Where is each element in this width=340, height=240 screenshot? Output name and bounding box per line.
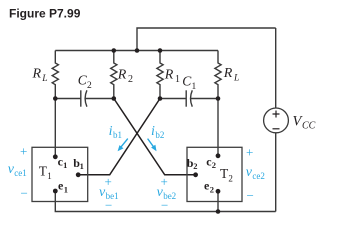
svg-text:2: 2 <box>212 160 216 170</box>
wire: cross-coupling R2 to b2 <box>114 99 196 175</box>
svg-text:−: − <box>247 188 254 203</box>
node: rail junction R2 <box>112 48 117 53</box>
svg-text:1: 1 <box>63 160 67 170</box>
resistor R1 <box>157 51 163 99</box>
svg-text:2: 2 <box>193 161 197 171</box>
svg-text:ce2: ce2 <box>252 171 265 181</box>
label vbe2 <box>157 174 177 213</box>
svg-text:CC: CC <box>302 121 316 132</box>
node: C2 left junction <box>53 96 58 101</box>
svg-text:1: 1 <box>47 171 52 181</box>
svg-text:2: 2 <box>210 185 214 195</box>
svg-text:1: 1 <box>64 185 68 195</box>
svg-text:R: R <box>223 66 233 81</box>
terminal e2 <box>204 178 220 194</box>
label vbe1 <box>99 174 119 213</box>
wire: lower top rail <box>55 50 218 52</box>
terminal e1 <box>53 178 68 194</box>
svg-text:2: 2 <box>87 81 92 91</box>
node: e2 bottom rail junction <box>216 209 221 214</box>
svg-text:−: − <box>105 198 112 213</box>
label vce2 <box>246 145 265 204</box>
svg-text:+: + <box>20 144 27 159</box>
transistor T2 <box>187 147 242 201</box>
label RL left <box>32 67 48 85</box>
wire: bottom rail <box>55 191 275 212</box>
svg-text:ce1: ce1 <box>14 168 26 178</box>
label VCC <box>293 114 316 132</box>
current ib1 <box>109 124 128 151</box>
svg-text:+: + <box>105 174 112 189</box>
label R2 <box>117 68 133 86</box>
resistor R2 <box>111 51 117 99</box>
svg-text:Figure P7.99: Figure P7.99 <box>9 6 81 20</box>
svg-text:2: 2 <box>128 74 133 85</box>
capacitor C1 <box>160 90 218 106</box>
svg-text:+: + <box>246 145 253 160</box>
svg-text:i: i <box>151 124 155 139</box>
label RL right <box>223 66 239 84</box>
terminal b2 <box>187 156 198 177</box>
wire: right branch to c2 <box>217 99 219 157</box>
label R1 <box>164 68 180 86</box>
resistor RL left <box>52 51 58 99</box>
svg-text:b2: b2 <box>155 130 164 140</box>
node: C2 right junction <box>112 96 117 101</box>
current ib2 <box>148 124 165 151</box>
transistor T1 <box>32 147 88 201</box>
capacitor C2 <box>55 90 114 106</box>
wire: VCC branch upper <box>275 28 277 108</box>
svg-text:−: − <box>21 186 28 201</box>
svg-text:R: R <box>117 68 127 83</box>
wire: left branch to c1 <box>54 99 56 157</box>
svg-text:i: i <box>109 124 113 139</box>
svg-text:L: L <box>233 74 239 84</box>
svg-text:R: R <box>164 68 174 83</box>
node: C1 left junction <box>158 96 163 101</box>
terminal c2 <box>206 153 220 170</box>
svg-text:2: 2 <box>228 174 233 184</box>
resistor RL right <box>215 51 221 99</box>
svg-text:−: − <box>161 198 168 213</box>
node: rail junction R1 <box>158 48 163 53</box>
label C2 <box>78 73 92 92</box>
wire: cross-coupling R1 to b1 <box>78 99 160 175</box>
node: C1 right junction <box>216 96 221 101</box>
label C1 <box>182 74 196 93</box>
svg-text:1: 1 <box>80 161 84 171</box>
node: rail junction riser <box>135 48 140 53</box>
wire: e2 to bottom rail <box>217 191 219 212</box>
voltage source VCC <box>264 108 289 133</box>
svg-text:R: R <box>32 67 42 82</box>
svg-text:L: L <box>41 74 47 84</box>
svg-text:b1: b1 <box>113 130 122 140</box>
svg-text:1: 1 <box>192 82 197 92</box>
terminal c1 <box>53 154 67 170</box>
svg-text:1: 1 <box>175 74 180 85</box>
wire: upper top rail with riser <box>137 28 276 51</box>
terminal b1 <box>73 156 84 177</box>
figure title <box>9 6 81 20</box>
label vce1 <box>8 144 28 201</box>
wire: VCC branch lower <box>275 133 277 212</box>
